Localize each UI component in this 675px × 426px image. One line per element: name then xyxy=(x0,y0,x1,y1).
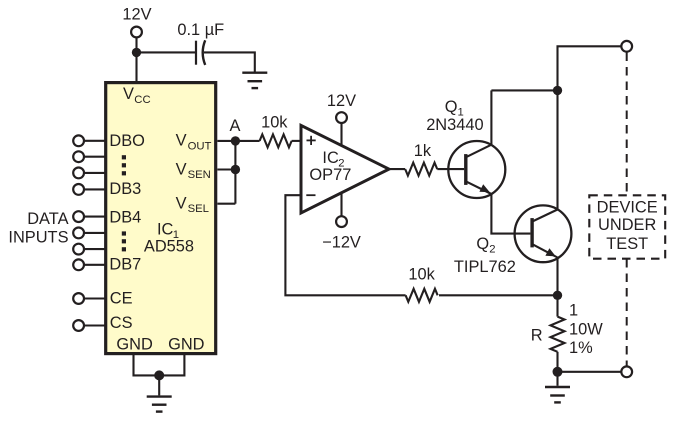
op-amp plus input symbol xyxy=(307,136,316,145)
IC1 part number AD558 xyxy=(144,238,194,256)
wire capacitor to ground xyxy=(204,52,255,71)
svg-text:TIPL762: TIPL762 xyxy=(454,258,516,276)
svg-text:12V: 12V xyxy=(122,6,151,24)
svg-text:10k: 10k xyxy=(261,113,288,131)
svg-text:CC: CC xyxy=(134,94,150,106)
transistor Q2 reference label xyxy=(476,235,495,256)
input terminal DB5 xyxy=(73,228,84,239)
GND pin labels xyxy=(116,336,204,354)
junction dot top rail xyxy=(553,86,562,95)
DATA INPUTS label xyxy=(8,210,68,246)
svg-text:OP77: OP77 xyxy=(309,166,351,184)
svg-text:CS: CS xyxy=(110,314,133,332)
wire CS xyxy=(84,324,104,326)
device under test dashed box xyxy=(589,195,665,258)
resistor R value 10W xyxy=(569,321,603,339)
input terminal DB1 xyxy=(73,151,84,162)
transistor Q1 emitter line xyxy=(466,181,491,194)
svg-text:DB7: DB7 xyxy=(109,255,141,273)
dashed lead top terminal to DUT xyxy=(626,53,628,196)
input terminal CS xyxy=(73,320,84,331)
wire GND pins to junction xyxy=(134,355,185,375)
ellipsis dots DB1-DB2 xyxy=(122,155,126,175)
svg-text:2: 2 xyxy=(489,244,495,256)
wire Q1 emitter to Q2 base xyxy=(491,194,530,234)
top output terminal xyxy=(621,41,632,52)
svg-text:AD558: AD558 xyxy=(144,238,194,256)
input terminal DB6 xyxy=(73,244,84,255)
svg-text:2N3440: 2N3440 xyxy=(426,116,483,134)
svg-text:GND: GND xyxy=(116,336,153,354)
wire feedback resistor to emitter node xyxy=(439,294,558,296)
svg-text:V: V xyxy=(176,194,187,212)
input terminal DB2 xyxy=(73,168,84,179)
12V supply label xyxy=(122,6,151,24)
wire node to resistor R xyxy=(556,295,558,316)
svg-text:DB4: DB4 xyxy=(109,208,141,226)
pin label DB4 xyxy=(109,208,141,226)
svg-text:Q: Q xyxy=(476,235,489,253)
svg-text:1%: 1% xyxy=(569,339,593,357)
wire 1k to Q1 base xyxy=(437,168,464,170)
wire feedback from op-amp minus input xyxy=(285,195,405,295)
transistor Q2 emitter line xyxy=(532,244,557,257)
transistor Q2 collector line xyxy=(532,210,557,222)
op-amp +12V label xyxy=(327,92,356,110)
svg-text:−12V: −12V xyxy=(322,233,361,251)
wire 12V terminal to VCC pin xyxy=(135,38,137,82)
svg-text:V: V xyxy=(176,132,187,150)
resistor R value 1% xyxy=(569,339,593,357)
svg-text:IC: IC xyxy=(157,220,174,238)
pin label CS xyxy=(110,314,133,332)
12V supply terminal xyxy=(131,27,142,38)
wire ground node to bottom terminal xyxy=(558,371,622,373)
svg-text:GND: GND xyxy=(168,336,205,354)
svg-text:DATA: DATA xyxy=(27,210,68,228)
pin label VSEL xyxy=(176,194,209,215)
wire DB4 xyxy=(84,216,104,218)
wire rail to top terminal xyxy=(558,46,622,90)
svg-text:A: A xyxy=(230,117,241,135)
junction dot ground node xyxy=(553,367,563,377)
svg-text:DBO: DBO xyxy=(109,132,145,150)
wire CE xyxy=(84,297,104,299)
svg-text:V: V xyxy=(123,85,134,103)
transistor Q1 part number 2N3440 xyxy=(426,116,483,134)
junction dot GND xyxy=(154,370,164,380)
IC1 AD558 body xyxy=(106,83,216,354)
svg-text:1k: 1k xyxy=(414,142,432,160)
transistor Q1 circle xyxy=(448,141,505,198)
svg-text:DB3: DB3 xyxy=(109,180,141,198)
wire GND junction to ground xyxy=(158,375,160,395)
wire op-amp output to 1k xyxy=(389,168,405,170)
svg-text:INPUTS: INPUTS xyxy=(8,228,68,246)
transistor Q2 emitter arrow xyxy=(545,248,555,256)
node A dot xyxy=(231,136,240,145)
bottom return terminal xyxy=(621,366,632,377)
op-amp -12V supply wire xyxy=(340,192,342,216)
capacitor C 0.1uF curved plate xyxy=(203,40,206,65)
op-amp part number OP77 xyxy=(309,166,351,184)
transistor Q1 collector line xyxy=(466,145,491,158)
op-amp +12V terminal xyxy=(336,112,347,123)
op-amp +12V supply wire xyxy=(340,123,342,146)
transistor Q2 circle xyxy=(515,205,572,262)
svg-text:0.1 µF: 0.1 µF xyxy=(177,21,224,39)
wire Q2 collector to rail junction xyxy=(556,90,558,209)
IC1 reference label xyxy=(157,220,179,241)
resistor 1k xyxy=(405,163,437,176)
resistor 1k label xyxy=(414,142,432,160)
resistor 10k (input) xyxy=(260,134,292,147)
capacitor C 0.1uF straight plate xyxy=(195,41,197,65)
wire DB5 xyxy=(84,232,104,234)
pin label DBO xyxy=(109,132,145,150)
ground (IC) xyxy=(147,397,172,412)
svg-text:TEST: TEST xyxy=(606,235,648,253)
wire Q2 emitter down xyxy=(556,258,558,296)
node A label xyxy=(230,117,241,135)
wire DB7 xyxy=(84,264,104,266)
svg-text:10k: 10k xyxy=(408,266,435,284)
transistor Q2 part number TIPL762 xyxy=(454,258,516,276)
resistor R value 1 xyxy=(569,301,578,319)
svg-text:UNDER: UNDER xyxy=(598,216,656,234)
capacitor value label 0.1 uF xyxy=(177,21,224,39)
transistor Q1 emitter arrow xyxy=(479,184,489,192)
resistor 10k (feedback) xyxy=(406,289,438,302)
VCC pin label xyxy=(123,85,151,106)
input terminal DB0 xyxy=(73,135,84,146)
wire DB6 xyxy=(84,248,104,250)
input terminal CE xyxy=(73,293,84,304)
ellipsis dots DB5-DB6 xyxy=(122,231,126,251)
wire DB0 xyxy=(84,140,104,142)
svg-text:R: R xyxy=(531,326,543,344)
wire resistor to op-amp xyxy=(292,140,302,142)
pin label VSEN xyxy=(176,160,211,181)
wire node A vertical xyxy=(234,141,236,204)
svg-text:SEL: SEL xyxy=(188,203,209,215)
resistor 10k label xyxy=(261,113,288,131)
input terminal DB3 xyxy=(73,184,84,195)
resistor 10k feedback label xyxy=(408,266,435,284)
ground (capacitor) xyxy=(242,73,267,88)
svg-text:SEN: SEN xyxy=(188,169,211,181)
svg-text:10W: 10W xyxy=(569,321,603,339)
pin label VOUT xyxy=(176,132,212,153)
junction dot emitter/feedback node xyxy=(553,291,562,300)
wire Q1 collector up xyxy=(490,90,492,144)
pin label DB3 xyxy=(109,180,141,198)
svg-text:IC: IC xyxy=(322,149,339,167)
ground (R) xyxy=(545,387,570,402)
svg-text:V: V xyxy=(176,160,187,178)
op-amp minus input symbol xyxy=(306,194,315,196)
svg-text:DEVICE: DEVICE xyxy=(597,198,658,216)
wire node to ground symbol xyxy=(556,372,558,386)
junction dot 12V/capacitor node xyxy=(132,48,141,57)
op-amp reference IC2 xyxy=(322,149,344,170)
wire DB1 xyxy=(84,156,104,158)
transistor Q1 reference label xyxy=(445,98,464,119)
junction dot VSEN xyxy=(231,165,240,174)
dashed lead DUT to bottom terminal xyxy=(626,259,628,366)
wire DB2 xyxy=(84,172,104,174)
svg-text:OUT: OUT xyxy=(188,140,212,152)
wire VSEL to node xyxy=(217,203,235,205)
op-amp -12V label xyxy=(322,233,361,251)
wire VSEN to node xyxy=(217,168,235,170)
pin label CE xyxy=(110,290,133,308)
wire DB3 xyxy=(84,188,104,190)
wire top rail xyxy=(491,89,557,91)
device under test label xyxy=(597,198,658,252)
wire junction to capacitor xyxy=(137,51,196,53)
input terminal DB7 xyxy=(73,259,84,270)
svg-text:Q: Q xyxy=(445,98,458,116)
wire R to ground node xyxy=(556,352,558,372)
svg-text:12V: 12V xyxy=(327,92,356,110)
input terminal DB4 xyxy=(73,211,84,222)
op-amp -12V terminal xyxy=(336,216,347,227)
resistor R 1 ohm xyxy=(551,317,565,352)
wire VOUT to node A to resistor xyxy=(217,140,259,142)
svg-text:1: 1 xyxy=(569,301,578,319)
transistor Q1 base bar xyxy=(464,154,467,185)
resistor R reference label xyxy=(531,326,543,344)
svg-text:CE: CE xyxy=(110,290,133,308)
transistor Q2 base bar xyxy=(530,218,533,247)
pin label DB7 xyxy=(109,255,141,273)
op-amp IC2 triangle xyxy=(301,125,389,213)
